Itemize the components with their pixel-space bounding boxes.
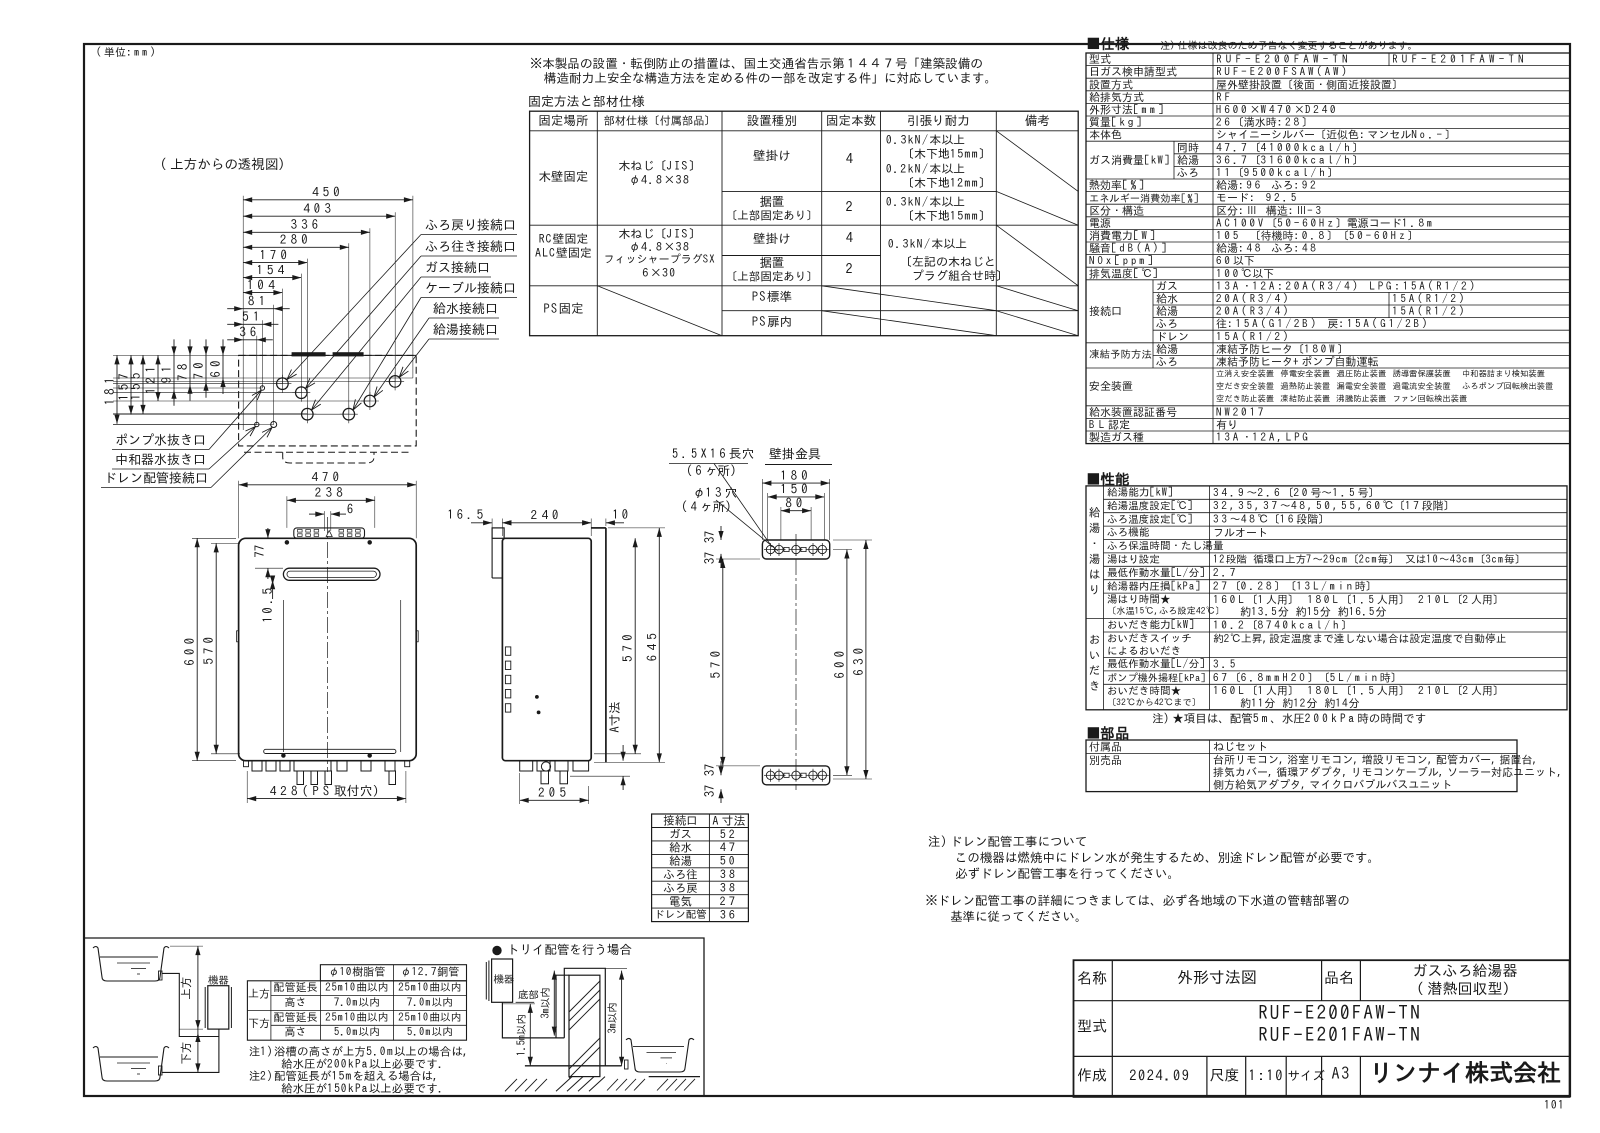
svg-text:・: ・ — [1089, 538, 1101, 549]
svg-text:給排気方式: 給排気方式 — [1089, 91, 1144, 103]
svg-text:エネルギー消費効率[%]: エネルギー消費効率[%] — [1089, 193, 1200, 204]
svg-text:■性能: ■性能 — [1086, 471, 1130, 486]
front view bottom pipe connections — [252, 761, 262, 771]
svg-text:3m以内: 3m以内 — [607, 1002, 618, 1034]
svg-text:据置: 据置 — [759, 195, 784, 208]
svg-text:H600×W470×D240: H600×W470×D240 — [1216, 105, 1338, 116]
svg-text:181: 181 — [103, 374, 116, 406]
vertical dimension 121 — [157, 355, 159, 401]
svg-text:15A(R1/2): 15A(R1/2) — [1216, 330, 1291, 342]
svg-text:34.9〜2.6〔20号〜1.5号〕: 34.9〜2.6〔20号〜1.5号〕 — [1213, 486, 1379, 498]
svg-text:15A(R1/2): 15A(R1/2) — [1392, 293, 1467, 305]
side view bottom pipes — [520, 761, 533, 771]
svg-text:〔上部固定あり〕: 〔上部固定あり〕 — [726, 270, 818, 282]
svg-text:4: 4 — [846, 152, 857, 166]
svg-text:A寸法: A寸法 — [608, 701, 621, 732]
svg-text:25m10曲以内: 25m10曲以内 — [324, 1012, 388, 1023]
left diagram device box — [208, 986, 229, 1029]
svg-text:80: 80 — [785, 496, 806, 509]
svg-text:PS固定: PS固定 — [543, 302, 584, 315]
svg-text:熱効率[%]: 熱効率[%] — [1089, 180, 1147, 191]
svg-text:NW2017: NW2017 — [1216, 407, 1266, 418]
svg-text:27〔0.28〕〔13L/min時〕: 27〔0.28〕〔13L/min時〕 — [1212, 580, 1377, 592]
svg-text:電気: 電気 — [669, 895, 692, 907]
svg-text:38: 38 — [720, 869, 738, 881]
torii dim 3m right — [621, 971, 623, 1066]
svg-text:570: 570 — [621, 630, 634, 662]
svg-text:47.7〔41000kcal/h〕: 47.7〔41000kcal/h〕 — [1216, 141, 1363, 153]
svg-text:ふろ機能: ふろ機能 — [1107, 526, 1150, 538]
svg-text:φ13穴: φ13穴 — [693, 486, 737, 499]
svg-text:湯: 湯 — [1089, 553, 1101, 565]
svg-text:機器: 機器 — [493, 974, 516, 985]
svg-text:配管延長: 配管延長 — [274, 982, 318, 993]
svg-text:給水圧が200kPa以上必要です.: 給水圧が200kPa以上必要です. — [281, 1057, 445, 1070]
svg-text:凍結予防ヒータ〔180W〕: 凍結予防ヒータ〔180W〕 — [1216, 343, 1348, 355]
svg-text:403: 403 — [303, 202, 335, 215]
svg-text:給湯: 給湯 — [1156, 343, 1178, 355]
updown dimension line — [197, 946, 199, 1029]
port: drain pipe (small) — [271, 422, 277, 428]
top view rear datum line — [239, 354, 417, 356]
front view exhaust louver — [283, 568, 380, 580]
bracket top plate — [762, 540, 829, 559]
svg-text:※ドレン配管工事の詳細につきましては、必ず各地域の下水道の管: ※ドレン配管工事の詳細につきましては、必ず各地域の下水道の管轄部署の — [925, 894, 1350, 907]
svg-text:は: は — [1089, 568, 1101, 580]
svg-text:2.7: 2.7 — [1212, 568, 1238, 579]
svg-text:木ねじ〔JIS〕: 木ねじ〔JIS〕 — [618, 160, 701, 172]
svg-text:中和器水抜き口: 中和器水抜き口 — [115, 453, 206, 466]
svg-text:給水: 給水 — [1156, 293, 1178, 305]
torii dim 3m left — [553, 971, 555, 1036]
svg-text:おいだき能力[kW]: おいだき能力[kW] — [1107, 619, 1195, 631]
bracket dim 570 — [722, 559, 724, 766]
svg-text:60以下: 60以下 — [1216, 256, 1255, 267]
svg-text:50: 50 — [720, 855, 738, 867]
svg-text:570: 570 — [709, 647, 722, 679]
svg-text:PS標準: PS標準 — [752, 290, 793, 303]
svg-text:27: 27 — [720, 896, 738, 908]
svg-text:給湯器内圧損[kPa]: 給湯器内圧損[kPa] — [1107, 580, 1201, 592]
svg-text:37: 37 — [703, 552, 716, 565]
svg-text:100℃以下: 100℃以下 — [1216, 268, 1274, 279]
svg-text:10: 10 — [612, 508, 632, 521]
svg-text:おいだきスイッチ: おいだきスイッチ — [1107, 633, 1192, 644]
svg-text:104: 104 — [247, 278, 279, 291]
svg-text:お: お — [1089, 634, 1101, 645]
svg-text:質量[kg]: 質量[kg] — [1089, 117, 1144, 128]
bracket dim 180 — [762, 482, 829, 484]
svg-text:25m10曲以内: 25m10曲以内 — [324, 982, 388, 993]
svg-text:ガス接続口: ガス接続口 — [425, 260, 490, 274]
svg-text:160L〔1人用〕 180L〔1.5人用〕 210L〔2: 160L〔1人用〕 180L〔1.5人用〕 210L〔2人用〕 — [1213, 594, 1504, 606]
svg-text:によるおいだき: によるおいだき — [1107, 645, 1181, 656]
lower tub outlet — [159, 1066, 163, 1075]
svg-text:160L〔1人用〕 180L〔1.5人用〕 210L〔2: 160L〔1人用〕 180L〔1.5人用〕 210L〔2人用〕 — [1213, 685, 1504, 697]
svg-text:注)★項目は、配管5m、水圧200kPa時の時間です: 注)★項目は、配管5m、水圧200kPa時の時間です — [1152, 712, 1426, 724]
svg-text:ふろ往き接続口: ふろ往き接続口 — [425, 240, 516, 253]
svg-text:6×30: 6×30 — [642, 267, 677, 279]
svg-text:ドレン: ドレン — [1156, 331, 1189, 342]
torii ground line right — [649, 1076, 700, 1078]
svg-text:36.7〔31600kcal/h〕: 36.7〔31600kcal/h〕 — [1216, 154, 1363, 166]
svg-text:設置方式: 設置方式 — [1089, 79, 1133, 90]
svg-text:上方: 上方 — [180, 977, 192, 1000]
top view burner bump — [283, 452, 374, 463]
svg-text:φ4.8×38: φ4.8×38 — [629, 174, 691, 186]
svg-text:155: 155 — [129, 369, 142, 401]
svg-text:製造ガス種: 製造ガス種 — [1089, 432, 1144, 443]
side view front louver slots — [505, 647, 510, 655]
ground hatching — [505, 1079, 517, 1091]
svg-text:〔木下地15mm〕: 〔木下地15mm〕 — [902, 210, 991, 222]
svg-text:154: 154 — [256, 263, 288, 276]
svg-text:※本製品の設置・転倒防止の措置は、国土交通省告示第１４４７号: ※本製品の設置・転倒防止の措置は、国土交通省告示第１４４７号「建築設備の — [530, 57, 983, 70]
svg-text:ふろ保温時間・たし湯量: ふろ保温時間・たし湯量 — [1107, 541, 1224, 552]
svg-text:トリイ配管を行う場合: トリイ配管を行う場合 — [507, 943, 632, 956]
horizontal dimension 36 — [243, 339, 257, 341]
bracket leader lines — [714, 464, 772, 548]
svg-text:ドレン配管: ドレン配管 — [654, 909, 707, 920]
svg-text:2: 2 — [846, 200, 857, 214]
fixing table diagonals — [996, 131, 1078, 192]
svg-text:φ4.8×38: φ4.8×38 — [629, 241, 691, 253]
horizontal dimension 170 — [243, 262, 307, 264]
svg-text:ガスふろ給湯器: ガスふろ給湯器 — [1413, 963, 1518, 978]
svg-text:37: 37 — [703, 531, 716, 544]
port: bath supply (fuero-yuki) — [296, 387, 308, 399]
svg-text:238: 238 — [315, 486, 347, 499]
front view extension lines — [238, 481, 240, 539]
svg-text:5.5X16長穴: 5.5X16長穴 — [672, 447, 754, 460]
svg-text:給湯:96 ふろ:92: 給湯:96 ふろ:92 — [1216, 179, 1319, 191]
svg-text:3m以内: 3m以内 — [540, 987, 551, 1019]
svg-text:基準に従ってください。: 基準に従ってください。 — [950, 910, 1088, 923]
svg-text:上方: 上方 — [248, 989, 270, 1000]
svg-text:600: 600 — [833, 646, 846, 678]
svg-text:600: 600 — [183, 634, 196, 666]
svg-text:給湯: 給湯 — [1156, 305, 1178, 317]
svg-text:25m10曲以内: 25m10曲以内 — [397, 982, 461, 993]
svg-text:型式: 型式 — [1089, 54, 1111, 65]
svg-text:ポンプ機外揚程[kPa]: ポンプ機外揚程[kPa] — [1107, 673, 1206, 684]
svg-text:凍結予防方法: 凍結予防方法 — [1089, 348, 1152, 360]
svg-text:尺度: 尺度 — [1210, 1067, 1240, 1082]
svg-text:0.3kN/本以上: 0.3kN/本以上 — [886, 133, 965, 146]
svg-text:(単位:mm): (単位:mm) — [96, 46, 158, 58]
svg-text:5.0m以内: 5.0m以内 — [334, 1027, 380, 1038]
svg-text:φ10樹脂管: φ10樹脂管 — [328, 967, 385, 978]
horizontal dimension 154 — [243, 277, 301, 279]
svg-text:最低作動水量[L/分]: 最低作動水量[L/分] — [1107, 566, 1206, 578]
svg-text:立消え安全装置 停電安全装置 過圧防止装置 誘導雷保護装置: 立消え安全装置 停電安全装置 過圧防止装置 誘導雷保護装置 — [1216, 368, 1451, 378]
svg-text:壁掛け: 壁掛け — [753, 232, 791, 245]
horizontal dimension 450 — [243, 199, 413, 201]
svg-text:プラグ組合せ時〕: プラグ組合せ時〕 — [912, 269, 1008, 282]
svg-text:■部品: ■部品 — [1086, 725, 1130, 740]
svg-text:フルオート: フルオート — [1213, 528, 1268, 539]
svg-text:日ガス検申請型式: 日ガス検申請型式 — [1089, 67, 1177, 78]
svg-text:ガス: ガス — [1156, 281, 1178, 292]
svg-text:645: 645 — [645, 629, 658, 661]
svg-text:下方: 下方 — [180, 1042, 192, 1065]
svg-text:接続口: 接続口 — [1089, 305, 1122, 317]
torii bath tub — [626, 1038, 694, 1072]
front view left extension lines — [192, 537, 236, 539]
svg-text:ふろポンプ回転検出装置: ふろポンプ回転検出装置 — [1462, 382, 1553, 391]
svg-text:(潜熱回収型): (潜熱回収型) — [1416, 981, 1514, 996]
side view extension lines top — [491, 519, 493, 531]
svg-text:RUF-E200FSAW(AW): RUF-E200FSAW(AW) — [1216, 67, 1350, 78]
port: neutralizer drain (small) — [260, 386, 264, 390]
vertical dimension 70 — [205, 355, 207, 381]
svg-text:注)仕様は改良のため予告なく変更することがあります。: 注)仕様は改良のため予告なく変更することがあります。 — [1160, 40, 1418, 51]
svg-text:101: 101 — [1544, 1099, 1565, 1111]
svg-text:ふろ戻り接続口: ふろ戻り接続口 — [425, 219, 516, 232]
svg-text:428(PS取付穴): 428(PS取付穴) — [270, 784, 384, 797]
svg-text:備考: 備考 — [1025, 114, 1050, 127]
svg-text:77: 77 — [253, 545, 266, 558]
horizontal dimension 280 — [243, 246, 349, 248]
svg-text:ふろ: ふろ — [1177, 168, 1199, 179]
svg-text:RUF-E201FAW-TN: RUF-E201FAW-TN — [1392, 54, 1528, 65]
svg-text:凍結予防ヒータ+ポンプ自動運転: 凍結予防ヒータ+ポンプ自動運転 — [1216, 356, 1378, 368]
svg-text:32,35,37〜48,50,55,60℃〔17段階〕: 32,35,37〜48,50,55,60℃〔17段階〕 — [1213, 500, 1455, 512]
svg-text:(4ヶ所): (4ヶ所) — [681, 500, 735, 513]
top view front cover line — [244, 451, 411, 453]
svg-text:4: 4 — [846, 231, 857, 245]
svg-text:給湯温度設定[℃]: 給湯温度設定[℃] — [1107, 499, 1193, 511]
svg-text:区分:Ⅲ 構造:Ⅲ-3: 区分:Ⅲ 構造:Ⅲ-3 — [1216, 205, 1324, 216]
front view dim 77 — [267, 528, 269, 538]
svg-text:2: 2 — [846, 262, 857, 276]
svg-text:AC100V〔50-60Hz〕電源コード1.8m: AC100V〔50-60Hz〕電源コード1.8m — [1216, 217, 1435, 229]
svg-text:(6ヶ所): (6ヶ所) — [686, 464, 740, 477]
svg-text:最低作動水量[L/分]: 最低作動水量[L/分] — [1107, 658, 1206, 670]
svg-text:給: 給 — [1089, 505, 1101, 518]
svg-text:安全装置: 安全装置 — [1089, 381, 1133, 392]
vertical dimension 78 — [189, 355, 191, 384]
horizontal dimension 403 — [243, 215, 395, 217]
svg-text:リンナイ株式会社: リンナイ株式会社 — [1369, 1061, 1561, 1085]
svg-text:固定場所: 固定場所 — [539, 114, 589, 127]
side view face dots — [535, 695, 538, 698]
svg-text:底部: 底部 — [518, 990, 539, 1001]
svg-text:10.2〔8740kcal/h〕: 10.2〔8740kcal/h〕 — [1213, 619, 1352, 631]
svg-text:下方: 下方 — [248, 1018, 270, 1029]
svg-text:モード: 92.5: モード: 92.5 — [1216, 193, 1299, 204]
svg-text:ケーブル接続口: ケーブル接続口 — [425, 281, 516, 295]
svg-text:170: 170 — [259, 248, 291, 261]
svg-text:〔32℃から42℃まで〕: 〔32℃から42℃まで〕 — [1107, 697, 1201, 707]
torii ground line left — [525, 1065, 622, 1067]
svg-text:注2)配管延長が15mを超える場合は,: 注2)配管延長が15mを超える場合は, — [249, 1070, 440, 1082]
upper bath tub — [93, 947, 169, 982]
svg-text:〔上部固定あり〕: 〔上部固定あり〕 — [726, 209, 818, 221]
side view dim 16.5 — [471, 522, 492, 524]
title block frame — [1074, 960, 1570, 1097]
front view center line — [326, 517, 328, 772]
port: water inlet — [364, 395, 376, 407]
svg-text:機器: 機器 — [207, 975, 230, 986]
parts table grid — [1086, 740, 1517, 792]
svg-text:本体色: 本体色 — [1089, 129, 1122, 141]
svg-text:おいだき時間★: おいだき時間★ — [1107, 685, 1182, 696]
front view dim 238 — [287, 499, 375, 501]
svg-text:A寸法: A寸法 — [712, 815, 745, 827]
svg-text:RUF-E200FAW-TN: RUF-E200FAW-TN — [1216, 54, 1352, 65]
vertical dimension 155 — [142, 355, 144, 414]
side view dim 10 — [606, 522, 624, 524]
svg-text:空だき防止装置 凍結防止装置 沸騰防止装置 ファン回転検出装: 空だき防止装置 凍結防止装置 沸騰防止装置 ファン回転検出装置 — [1216, 394, 1467, 404]
svg-text:6: 6 — [347, 503, 357, 516]
port: cable — [343, 408, 355, 420]
side view bracket plate — [491, 538, 493, 578]
svg-text:壁掛金具: 壁掛金具 — [769, 448, 821, 461]
front view dim 428 (PS mounting holes) — [246, 771, 248, 803]
svg-text:注)ドレン配管工事について: 注)ドレン配管工事について — [928, 835, 1088, 848]
svg-text:180: 180 — [780, 469, 812, 482]
svg-text:7.0m以内: 7.0m以内 — [407, 997, 453, 1008]
svg-text:往:15A(G1/2B) 戻:15A(G1/2B): 往:15A(G1/2B) 戻:15A(G1/2B) — [1216, 318, 1430, 330]
bracket center line — [795, 534, 797, 790]
svg-text:品名: 品名 — [1324, 970, 1354, 985]
svg-text:湯はり時間★: 湯はり時間★ — [1107, 594, 1171, 605]
svg-text:構造耐力上安全な構造方法を定める件の一部を改定する件」に対応: 構造耐力上安全な構造方法を定める件の一部を改定する件」に対応しています。 — [544, 71, 997, 84]
svg-text:A3: A3 — [1332, 1066, 1351, 1082]
svg-text:給湯能力[kW]: 給湯能力[kW] — [1107, 486, 1174, 498]
vertical dimension 91 — [173, 355, 175, 389]
fixing table grid — [530, 111, 1079, 336]
svg-text:ふろ戻: ふろ戻 — [663, 882, 698, 894]
front view extension for 77 — [250, 537, 280, 539]
dimension extension lines (vertical, top view) — [412, 196, 414, 378]
svg-text:570: 570 — [202, 633, 215, 665]
svg-text:78: 78 — [176, 359, 189, 380]
svg-text:ドレン配管接続口: ドレン配管接続口 — [104, 472, 208, 485]
svg-text:約2℃上昇,設定温度まで達しない場合は設定温度で自動停止: 約2℃上昇,設定温度まで達しない場合は設定温度で自動停止 — [1213, 632, 1507, 644]
svg-text:37: 37 — [703, 785, 716, 798]
svg-text:20A(R3/4): 20A(R3/4) — [1215, 305, 1291, 317]
svg-text:ガス: ガス — [669, 828, 692, 840]
svg-text:給水圧が150kPa以上必要です.: 給水圧が150kPa以上必要です. — [281, 1082, 445, 1095]
front view top vent strip — [294, 528, 365, 538]
svg-text:ふろ: ふろ — [1156, 319, 1178, 330]
horizontal dimension 104 — [243, 292, 282, 294]
svg-text:26〔満水時:28〕: 26〔満水時:28〕 — [1215, 116, 1313, 128]
svg-text:給湯:48 ふろ:48: 給湯:48 ふろ:48 — [1216, 242, 1319, 254]
svg-text:ポンプ水抜き口: ポンプ水抜き口 — [115, 434, 206, 447]
svg-text:ガス消費量[kW]: ガス消費量[kW] — [1089, 155, 1171, 166]
svg-text:木ねじ〔JIS〕: 木ねじ〔JIS〕 — [618, 228, 701, 240]
bracket dim 600 — [846, 550, 848, 776]
svg-text:PS扉内: PS扉内 — [752, 315, 793, 328]
bracket top extension lines — [761, 479, 763, 540]
bottom-left section box — [84, 938, 704, 1096]
svg-text:16.5: 16.5 — [447, 508, 487, 521]
svg-text:空だき安全装置 過熱防止装置 漏電安全装置 過電流安全装置: 空だき安全装置 過熱防止装置 漏電安全装置 過電流安全装置 — [1216, 382, 1451, 391]
front view dim 470 — [239, 484, 417, 486]
svg-text:給水装置認証番号: 給水装置認証番号 — [1089, 406, 1177, 418]
svg-text:〔木下地15mm〕: 〔木下地15mm〕 — [902, 148, 991, 160]
svg-text:排気温度[℃]: 排気温度[℃] — [1089, 267, 1161, 279]
side view wall bracket hook — [492, 528, 504, 538]
svg-text:り: り — [1089, 585, 1101, 596]
bracket dim 37 top pair — [720, 526, 722, 540]
svg-text:中和器詰まり検知装置: 中和器詰まり検知装置 — [1462, 369, 1545, 378]
svg-text:105 〔待機時:0.8〕〔50-60Hz〕: 105 〔待機時:0.8〕〔50-60Hz〕 — [1216, 230, 1418, 242]
svg-text:型式: 型式 — [1077, 1018, 1107, 1033]
port: bath return (fuero-modori) — [277, 378, 289, 390]
svg-text:5.0m以内: 5.0m以内 — [407, 1027, 453, 1038]
svg-text:給湯接続口: 給湯接続口 — [433, 322, 498, 336]
svg-text:RC壁固定: RC壁固定 — [539, 233, 589, 245]
svg-text:固定本数: 固定本数 — [826, 114, 876, 127]
svg-text:引張り耐力: 引張り耐力 — [907, 114, 970, 127]
torii dim 1.5m — [529, 1004, 531, 1066]
svg-text:0.3kN/本以上: 0.3kN/本以上 — [886, 195, 965, 208]
svg-text:外形寸法[mm]: 外形寸法[mm] — [1089, 105, 1166, 116]
port: hot water outlet — [389, 376, 401, 388]
port: pump drain (small) — [255, 422, 259, 426]
svg-text:ふろ往: ふろ往 — [663, 868, 698, 880]
torii pillar (hatched wall) — [569, 975, 600, 1076]
svg-text:25m10曲以内: 25m10曲以内 — [397, 1012, 461, 1023]
svg-text:電源: 電源 — [1089, 218, 1111, 229]
svg-text:NOx[ppm]: NOx[ppm] — [1089, 256, 1156, 267]
front view unit outline — [239, 538, 417, 760]
svg-text:2024.09: 2024.09 — [1129, 1067, 1190, 1082]
horizontal dimension 336 — [243, 231, 370, 233]
bracket dim 80 — [781, 510, 811, 512]
svg-text:0.2kN/本以上: 0.2kN/本以上 — [886, 162, 965, 175]
svg-text:ねじセット: ねじセット — [1213, 741, 1268, 752]
spec table grid — [1086, 53, 1570, 444]
svg-text:接続口: 接続口 — [663, 814, 698, 827]
top view unit outline (dashed) — [239, 355, 417, 446]
svg-text:67〔6.8mmH2O〕〔5L/min時〕: 67〔6.8mmH2O〕〔5L/min時〕 — [1213, 671, 1402, 683]
front view corner screws — [285, 541, 289, 545]
bracket dim 630 — [865, 540, 867, 779]
svg-text:湯はり設定: 湯はり設定 — [1107, 554, 1160, 565]
svg-text:20A(R3/4): 20A(R3/4) — [1215, 293, 1291, 305]
dimension extension lines (horizontal, top view) — [113, 377, 413, 379]
svg-text:150: 150 — [780, 483, 812, 496]
svg-text:36: 36 — [720, 909, 738, 921]
svg-text:38: 38 — [720, 882, 738, 894]
svg-text:RUF-E201FAW-TN: RUF-E201FAW-TN — [1258, 1026, 1422, 1045]
svg-text:240: 240 — [531, 509, 563, 522]
svg-text:336: 336 — [291, 218, 323, 231]
svg-text:注1)浴槽の高さが上方5.0m以上の場合は,: 注1)浴槽の高さが上方5.0m以上の場合は, — [249, 1044, 470, 1057]
svg-text:配管延長: 配管延長 — [274, 1012, 318, 1023]
vertical dimension 181 — [116, 355, 118, 423]
svg-text:10.5: 10.5 — [261, 585, 274, 623]
svg-text:〔左記の木ねじと: 〔左記の木ねじと — [900, 255, 996, 268]
side view dim 645 — [658, 528, 660, 763]
svg-text:470: 470 — [311, 471, 343, 484]
svg-text:消費電力[W]: 消費電力[W] — [1089, 231, 1158, 242]
svg-text:湯: 湯 — [1089, 522, 1101, 534]
svg-text:側方給気アダプタ,マイクロバブルバスユニット: 側方給気アダプタ,マイクロバブルバスユニット — [1213, 779, 1452, 791]
svg-text:ふろ: ふろ — [1156, 357, 1178, 368]
svg-text:だ: だ — [1089, 664, 1101, 676]
svg-text:47: 47 — [720, 842, 738, 854]
svg-text:必ずドレン配管工事を行ってください。: 必ずドレン配管工事を行ってください。 — [955, 867, 1180, 880]
bracket dim 150 — [768, 496, 825, 498]
front view dim 570 — [215, 543, 217, 753]
bracket bottom plate — [762, 766, 829, 785]
